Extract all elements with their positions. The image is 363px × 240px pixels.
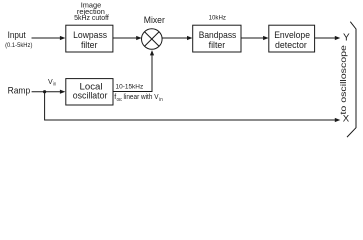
wire mixer to bandpass bbox=[162, 36, 192, 40]
bandpass annotation 10kHz bbox=[209, 15, 227, 22]
wire input to lowpass bbox=[32, 36, 66, 40]
wire ramp junction to X output bbox=[45, 92, 341, 122]
svg-text:Mixer: Mixer bbox=[144, 15, 165, 25]
svg-text:(0.1-5kHz): (0.1-5kHz) bbox=[5, 42, 32, 49]
node Input label bbox=[5, 30, 32, 49]
svg-text:10-15kHz: 10-15kHz bbox=[116, 84, 144, 91]
svg-text:Y: Y bbox=[343, 32, 350, 43]
bandpass filter block bbox=[193, 25, 241, 52]
mixer U1 bbox=[142, 15, 165, 50]
svg-text:linear with V: linear with V bbox=[124, 94, 159, 101]
svg-text:filter: filter bbox=[209, 40, 226, 51]
svg-text:in: in bbox=[53, 82, 56, 88]
node Vin label bbox=[48, 79, 56, 88]
node Ramp label bbox=[8, 86, 31, 96]
lowpass filter annotation: image rejection 5kHz cutoff bbox=[74, 1, 110, 23]
wire lowpass to mixer bbox=[113, 36, 142, 40]
svg-text:osc: osc bbox=[117, 97, 123, 103]
svg-text:10kHz: 10kHz bbox=[209, 15, 227, 22]
svg-text:in: in bbox=[159, 97, 163, 103]
node X output bbox=[343, 113, 350, 124]
svg-text:5kHz cutoff: 5kHz cutoff bbox=[74, 13, 110, 22]
lowpass filter block bbox=[66, 25, 113, 52]
svg-text:detector: detector bbox=[275, 40, 307, 51]
local oscillator block bbox=[66, 79, 113, 105]
svg-text:filter: filter bbox=[81, 40, 98, 51]
node Y output bbox=[343, 32, 350, 43]
svg-text:oscillator: oscillator bbox=[73, 91, 108, 102]
svg-text:Input: Input bbox=[8, 30, 27, 40]
wire bandpass to envelope bbox=[241, 36, 269, 40]
bracket grouping outputs to oscilloscope bbox=[347, 22, 356, 137]
svg-text:to oscilloscope: to oscilloscope bbox=[339, 45, 348, 115]
envelope detector block bbox=[269, 25, 315, 52]
wire local oscillator to mixer bbox=[113, 50, 154, 91]
local oscillator annotation bbox=[114, 84, 163, 103]
node junction on ramp wire bbox=[43, 90, 46, 93]
to oscilloscope label bbox=[339, 45, 348, 115]
svg-text:Ramp: Ramp bbox=[8, 86, 31, 96]
wire ramp to local oscillator bbox=[32, 90, 66, 94]
wire envelope to Y output bbox=[315, 36, 341, 40]
